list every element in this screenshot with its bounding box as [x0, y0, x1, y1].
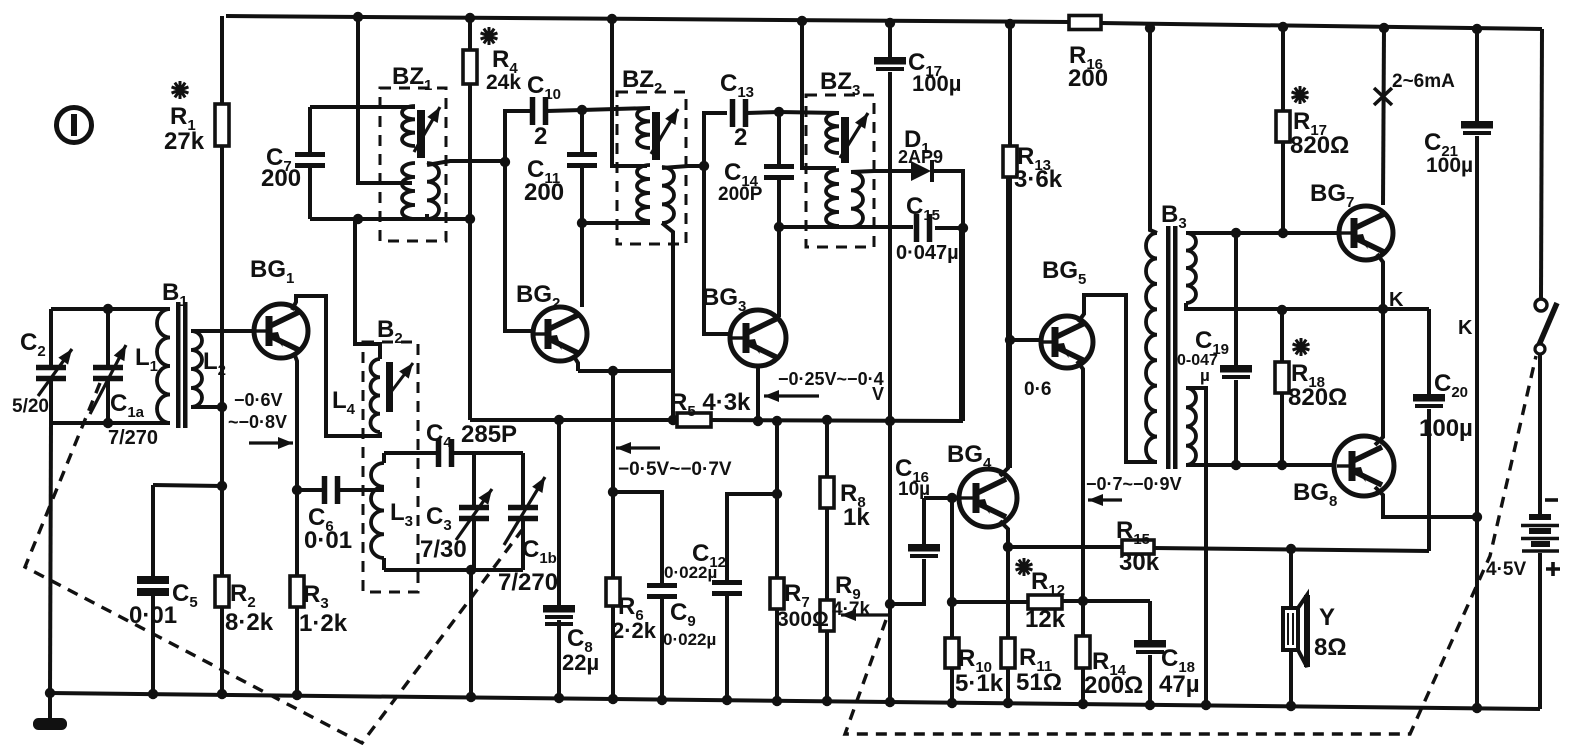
wire top supply rail right of R16	[1101, 23, 1542, 29]
resistor R14 200ohm	[1076, 636, 1090, 668]
node R4 / BZ1 bottom	[465, 214, 475, 224]
node rail/ground corner	[45, 688, 55, 698]
node rail / BZ1 feed	[353, 12, 363, 22]
svg-text:2AP9: 2AP9	[898, 147, 943, 167]
wire BG1 emitter to R3	[294, 353, 297, 576]
wire dashed volume/switch gang link	[845, 356, 1536, 734]
resistor R12 12k	[1028, 595, 1062, 609]
capacitor C1a (variable 7/270)	[90, 345, 126, 414]
inductor BZ2 primary upper section	[637, 108, 650, 148]
inductor L4 (oscillator feedback winding)	[371, 359, 381, 432]
wire C3 bottom lead	[472, 521, 476, 570]
node C19 top	[1231, 228, 1241, 238]
wire rail to R4	[468, 18, 472, 50]
resistor R10 5.1k	[945, 638, 959, 668]
wire antenna tank bottom	[51, 421, 170, 425]
wire bottom ground rail	[50, 693, 1540, 709]
svg-text:0·022µ: 0·022µ	[664, 563, 717, 582]
wire R9 to ground rail	[825, 631, 829, 701]
wire D1 cathode down to C15 node	[934, 171, 963, 228]
wire BG2 emitter horizontal	[578, 369, 673, 373]
node C18 ground	[1145, 700, 1155, 710]
svg-text:0-047: 0-047	[1177, 352, 1218, 369]
wire emitter column through R6	[611, 371, 615, 699]
wire base node to R12	[952, 600, 1028, 604]
wire BG8 collector to K node	[1375, 309, 1383, 445]
wire BG2 emitter lead	[573, 355, 578, 371]
capacitor C7 200	[295, 155, 325, 166]
wire BG8 emitter to ground column	[1375, 487, 1477, 517]
inductor BZ3 secondary	[851, 172, 863, 227]
IF transformer BZ2 dashed enclosure	[617, 92, 686, 244]
node R18 / BG8 base	[1277, 460, 1287, 470]
svg-text:R5 4·3k: R5 4·3k	[670, 389, 751, 420]
node K output	[1378, 304, 1388, 314]
switch K terminal bottom	[1535, 344, 1545, 354]
node BG4 base / R10	[947, 493, 957, 503]
wire R17 to BG7 base line	[1281, 142, 1285, 233]
capacitor C3 (trimmer 7/30)	[456, 489, 492, 540]
wire BZ1 secondary bottom stub	[425, 214, 429, 219]
node C14 bottom / BZ3 primary bottom / BG3 collector	[774, 222, 784, 232]
node C11 bottom / BZ2 primary bottom / BG2 collector	[577, 218, 587, 228]
wire top rail to R1	[220, 16, 224, 104]
node rail / BZ2 feed	[607, 14, 617, 24]
resistor R2 8.2k	[215, 576, 229, 607]
wire BZ2 secondary top lead	[662, 166, 704, 168]
svg-text:51Ω: 51Ω	[1016, 669, 1062, 696]
svg-text:−0·25V~−0·4: −0·25V~−0·4	[778, 369, 884, 389]
capacitor C17 100u	[874, 57, 906, 69]
wire K line to R18	[1280, 310, 1284, 362]
inductor B3 secondary upper	[1186, 233, 1196, 303]
wire rail to BZ1 primary tap	[358, 17, 412, 183]
inductor B3 primary	[1146, 233, 1157, 462]
inductor BZ1 primary upper section	[402, 106, 415, 146]
battery 4.5V	[1521, 514, 1559, 551]
diode D1 2AP9	[911, 160, 932, 182]
node audio column ground	[885, 697, 895, 707]
node BZ2 sec / C13 / BG3 base	[699, 161, 709, 171]
wire C11 bottom lead	[580, 168, 584, 223]
node BG8 emitter / C21 column	[1472, 512, 1482, 522]
capacitor C16 10u	[908, 544, 940, 556]
svg-text:200Ω: 200Ω	[1084, 672, 1143, 699]
switch K lever	[1536, 303, 1557, 352]
wire L2 top to BG1 base	[191, 329, 254, 333]
node speaker top	[1286, 544, 1296, 554]
resistor R7 300ohm	[770, 578, 784, 609]
wire C16 top lead	[922, 498, 926, 545]
wire R13 to BG4 collector / BG5 base	[1008, 177, 1012, 468]
node speaker ground	[1286, 701, 1296, 711]
node R3 ground	[292, 690, 302, 700]
node rail / R13	[1005, 19, 1015, 29]
node BG5 emitter / R14 / R12	[1078, 596, 1088, 606]
wire C14 bottom lead	[777, 180, 781, 227]
svg-text:300Ω: 300Ω	[777, 608, 829, 631]
node rail / B3 primary	[1145, 23, 1155, 33]
capacitor C1b (variable 7/270)	[504, 477, 545, 545]
transistor BG3	[730, 310, 786, 366]
wire R10 to ground rail	[950, 668, 954, 703]
node AVC / R7	[772, 416, 782, 426]
wire R7 to ground rail	[775, 609, 779, 701]
node C7/BZ1 bottom/L4	[353, 214, 363, 224]
wire C6 to L3 tap	[339, 488, 384, 492]
wire to BG5 base	[1010, 338, 1041, 342]
node BG1 emitter / C6	[292, 485, 302, 495]
transistor BG5	[1040, 316, 1093, 368]
node BG5 base	[1005, 335, 1015, 345]
svg-text:Y: Y	[1319, 604, 1335, 631]
capacitor C4 285P	[439, 439, 452, 467]
wire BG3 collector lead	[777, 227, 781, 317]
wire BG2 collector lead	[580, 223, 584, 307]
wire R14 to ground rail	[1081, 668, 1085, 704]
wire C18 to ground rail	[1148, 655, 1152, 705]
wire C5 top lead	[151, 485, 155, 577]
wire B3 sec upper bottom to K node	[1186, 303, 1429, 309]
inductor BZ3 primary lower section	[826, 170, 839, 226]
node C16 jog	[885, 599, 895, 609]
ground	[33, 693, 67, 730]
wire top supply rail left of R16	[226, 16, 1069, 22]
wire B3 sec lower top to ground rail	[1186, 388, 1206, 705]
wire to speaker	[1289, 549, 1293, 608]
wire L3 bottom stub	[382, 558, 386, 570]
wire R8 to R9	[825, 508, 829, 600]
node BG2 emitter / R6	[608, 366, 618, 376]
wire speaker to ground rail	[1289, 650, 1293, 706]
wire BZ1 bottom node	[310, 217, 470, 221]
node R14 ground	[1078, 699, 1088, 709]
inductor BZ2 primary lower section	[637, 165, 650, 221]
svg-text:2: 2	[534, 123, 547, 150]
resistor R9 4.7k (volume)	[820, 600, 834, 631]
svg-text:7/270: 7/270	[498, 569, 558, 596]
transformer BZ2 core bar	[652, 112, 660, 160]
capacitor C11 200	[567, 155, 597, 166]
svg-text:2~6mA: 2~6mA	[1392, 71, 1455, 92]
wire C10 right lead	[547, 110, 582, 111]
wire to BZ2 primary top	[582, 108, 650, 110]
wire BG5 collector to B3 primary bottom	[1078, 295, 1157, 462]
transformer BZ3 core bar	[841, 117, 849, 163]
wire L3 top stub	[382, 453, 386, 463]
node C5 ground	[148, 689, 158, 699]
wire C19 bottom lead	[1234, 380, 1238, 465]
svg-text:3·6k: 3·6k	[1014, 166, 1063, 193]
arrow BZ3 adjustable core	[840, 113, 868, 158]
node R7 ground	[772, 696, 782, 706]
wire C21 to ground rail	[1475, 136, 1479, 708]
resistor R6 2.2k	[606, 578, 620, 606]
wire C16 bottom jog to volume arrow	[890, 559, 924, 604]
svg-text:K: K	[1458, 317, 1473, 339]
wire to C6	[297, 488, 323, 492]
wire BG5 emitter to R14	[1077, 361, 1083, 636]
node AVC / audio column	[885, 416, 895, 426]
wire rail to BZ2 primary tap	[612, 19, 647, 166]
wire tank top left of C4	[384, 451, 437, 455]
wire BZ2 sec to BG3 base	[704, 166, 730, 334]
speaker Y 8ohm	[1283, 595, 1307, 667]
figure label (I)	[57, 108, 92, 143]
wire C1b top lead	[521, 453, 525, 505]
svg-text:1k: 1k	[843, 504, 870, 531]
wire BG3 emitter to AVC line	[756, 366, 760, 421]
node tank top / C1a	[103, 304, 113, 314]
capacitor C15 0.047u	[917, 214, 930, 242]
node R6 top / C9 jog	[608, 487, 618, 497]
inductor BZ2 secondary	[662, 167, 674, 223]
wire to C5 branch	[153, 485, 222, 486]
svg-text:4·7k: 4·7k	[832, 599, 870, 620]
arrow BZ2 adjustable core	[651, 109, 678, 154]
wire R4 to AVC line	[468, 84, 472, 420]
arrow B2 adjustable core	[388, 363, 413, 396]
asterisk R17	[1292, 86, 1309, 104]
node C12 ground	[722, 695, 732, 705]
capacitor C18 47u	[1134, 640, 1166, 652]
node R18 top / K line	[1277, 305, 1287, 315]
wire antenna tank top	[51, 307, 170, 311]
wire C15 right lead	[935, 226, 963, 230]
svg-text:4·5V: 4·5V	[1486, 559, 1526, 580]
wire BZ1 sec to BG2 base	[505, 162, 533, 331]
node BG4 emitter / R15 feedback	[1003, 542, 1013, 552]
capacitor C19 0.047u	[1220, 365, 1252, 377]
wire C1b bottom lead	[521, 521, 525, 570]
wire C14 top lead	[777, 112, 781, 164]
transistor BG4	[959, 469, 1017, 527]
resistor R3 1.2k	[290, 576, 304, 607]
wire dashed tuning gang link	[25, 383, 522, 743]
wire rail to R13	[1008, 24, 1012, 146]
wire C2 top lead	[49, 309, 53, 365]
capacitor C5 0.01	[137, 576, 169, 584]
node C8 ground	[554, 693, 564, 703]
label battery plus	[1546, 562, 1560, 576]
wire detector to AVC corner	[961, 228, 965, 421]
wire L4 top to oscillator node	[355, 219, 380, 359]
capacitor C21 100u	[1461, 121, 1493, 133]
wire BZ3 secondary top to D1	[851, 171, 911, 172]
meter point X 2~6mA	[1374, 88, 1392, 105]
inductor BZ1 secondary	[427, 163, 439, 219]
svg-text:0·047µ: 0·047µ	[896, 242, 959, 264]
svg-text:0·01: 0·01	[304, 527, 352, 554]
svg-text:12k: 12k	[1025, 606, 1066, 633]
wire R11 to ground rail	[1006, 668, 1010, 703]
IF transformer BZ3 dashed enclosure	[806, 95, 874, 247]
wire battery to ground rail	[1538, 553, 1542, 709]
wire C8 to ground rail	[557, 620, 561, 698]
wire AVC line left segment	[470, 418, 677, 422]
inductor BZ3 primary upper section	[826, 113, 839, 153]
wire tank top right of C4	[453, 451, 523, 455]
node BZ2 sec bottom / R5 left	[668, 415, 678, 425]
wire tank bottom	[384, 568, 523, 572]
node R9 ground	[822, 696, 832, 706]
wire rail right side down to switch	[1541, 29, 1542, 299]
arrow volume pickoff at R9	[841, 613, 890, 616]
svg-text:30k: 30k	[1119, 549, 1160, 576]
inductor B3 secondary lower	[1186, 388, 1196, 465]
wire AVC to R8	[825, 420, 829, 477]
wire C11 top lead	[580, 110, 584, 152]
wire C20 to speaker line	[1427, 409, 1431, 551]
node C13 / C14 / BZ3 top	[774, 107, 784, 117]
wire C17/audio column to ground rail	[888, 72, 892, 702]
wire R18 to BG8 base line	[1280, 393, 1284, 465]
svg-text:~−0·8V: ~−0·8V	[228, 412, 287, 432]
svg-text:−0·5V~−0·7V: −0·5V~−0·7V	[618, 459, 732, 480]
wire C19 top lead	[1234, 233, 1238, 366]
wire R7 column	[775, 421, 779, 578]
wire AVC line right segment up to detector	[711, 228, 961, 421]
wire R15 to C20/speaker node	[1154, 548, 1429, 551]
wire L2 bottom to R1/R2 node	[191, 405, 222, 409]
wire tank to ground rail	[469, 570, 473, 697]
asterisk R18	[1293, 338, 1310, 356]
wire R1 to R2 column	[220, 146, 224, 576]
wire tank bottom to ground rail	[50, 423, 51, 693]
capacitor C9 0.022u	[647, 586, 677, 597]
arrow annotation BG1 emitter voltage	[249, 441, 293, 444]
node R6 ground	[608, 694, 618, 704]
capacitor C12 0.022u	[712, 583, 742, 594]
svg-text:7/270: 7/270	[108, 427, 158, 449]
wire switch to battery	[1538, 354, 1542, 516]
svg-text:7/30: 7/30	[420, 536, 467, 563]
svg-text:K: K	[1389, 289, 1404, 311]
node R2 top / C5 wire	[217, 481, 227, 491]
svg-text:200: 200	[1068, 65, 1108, 92]
wire R2 to ground rail	[220, 607, 224, 694]
capacitor C20 100u	[1413, 394, 1445, 406]
wire K to C20	[1427, 309, 1431, 395]
wire BZ1 secondary top to C10 node	[427, 161, 505, 165]
node C10 / C11 / BZ2 top	[577, 105, 587, 115]
node tank bottom center	[466, 565, 476, 575]
wire rail to BZ3 primary tap	[802, 21, 836, 168]
inductor L2 (B1 secondary)	[191, 331, 202, 407]
resistor R5 4.3k	[677, 413, 711, 427]
wire C21 top lead	[1475, 29, 1479, 122]
wire BG4 emitter down to R11	[1000, 521, 1008, 638]
asterisk R4	[481, 27, 498, 45]
asterisk R1	[172, 81, 189, 99]
node R10 ground	[947, 698, 957, 708]
wire BG4 emitter to R15	[1008, 545, 1122, 549]
node B3 sec ground	[1201, 700, 1211, 710]
resistor R15 30k	[1122, 540, 1154, 554]
transistor BG8	[1334, 436, 1394, 496]
wire R12 to BG5 emitter node	[1062, 599, 1150, 603]
resistor R11 51ohm	[1001, 638, 1015, 668]
capacitor C6 0.01	[325, 476, 338, 504]
wire jog to C9	[613, 492, 662, 583]
wire BG7 emitter to K node	[1377, 254, 1383, 309]
node rail / R4	[465, 13, 475, 23]
node R10 top / R12	[947, 597, 957, 607]
transformer B3 core	[1166, 226, 1171, 469]
node R2 ground	[217, 689, 227, 699]
wire base to R10	[950, 498, 954, 638]
capacitor C10 2	[533, 97, 546, 125]
wire BZ2 secondary bottom to AVC line	[662, 223, 673, 420]
wire C13 right lead	[747, 112, 779, 113]
svg-text:100µ: 100µ	[1426, 154, 1473, 177]
wire C15 left lead	[779, 225, 913, 229]
node BZ1 sec / C10 / BG2 base	[500, 157, 510, 167]
svg-text:200: 200	[261, 165, 301, 192]
node rail / C21	[1472, 24, 1482, 34]
node C9 ground	[657, 695, 667, 705]
svg-text:10µ: 10µ	[898, 479, 930, 500]
resistor R4 24k	[463, 50, 477, 84]
label battery minus	[1545, 498, 1558, 502]
transistor BG2	[533, 307, 587, 361]
resistor R17 820ohm	[1276, 111, 1290, 142]
wire C10 left lead	[505, 111, 531, 161]
svg-text:0·6: 0·6	[1024, 379, 1051, 400]
wire C5 to ground rail	[151, 596, 155, 694]
node R17 / BG7 base	[1278, 228, 1288, 238]
svg-text:27k: 27k	[164, 128, 205, 155]
node BG3 emitter / AVC	[753, 416, 763, 426]
wire C13 left lead	[704, 113, 727, 166]
node tank bottom / C1a	[103, 418, 113, 428]
svg-text:2·2k: 2·2k	[612, 618, 657, 643]
svg-text:285P: 285P	[461, 421, 517, 448]
svg-text:8·2k: 8·2k	[225, 609, 274, 636]
inductor L3 (oscillator tank winding)	[371, 463, 384, 558]
inductor BZ1 primary lower section	[402, 163, 415, 219]
wire C9 to ground rail	[660, 599, 664, 700]
wire jog to C12	[727, 494, 777, 580]
capacitor C2 (variable 5/20)	[36, 349, 72, 396]
resistor R13 3.6k	[1003, 146, 1017, 177]
node rail / BZ3 feed	[797, 16, 807, 26]
wire B3 sec lower bottom to BG8 base	[1186, 463, 1334, 467]
resistor R16 inline in top rail	[1069, 16, 1101, 30]
capacitor C8 22u	[543, 605, 575, 617]
transistor BG7	[1339, 206, 1393, 260]
arrow BZ1 adjustable core	[414, 107, 440, 152]
wire to BZ2 primary bottom	[582, 221, 650, 225]
svg-text:µ: µ	[1200, 366, 1210, 385]
node R7 / C12 jog	[772, 489, 782, 499]
svg-text:5/20: 5/20	[12, 396, 49, 417]
svg-text:200: 200	[524, 179, 564, 206]
wire C1a top lead	[106, 309, 110, 365]
transformer BZ1 core bar	[417, 110, 425, 158]
capacitor C14 200P	[764, 167, 794, 178]
node R11 ground	[1003, 698, 1013, 708]
wire C7 top to BZ1 primary top	[310, 105, 415, 109]
wire C2 bottom lead	[49, 381, 53, 423]
svg-text:47µ: 47µ	[1159, 671, 1200, 698]
node rail / C17	[885, 18, 895, 28]
wire BG1 collector to L4 bottom	[292, 296, 380, 436]
transformer B2 dashed enclosure	[363, 342, 418, 592]
resistor R1 27k	[215, 104, 229, 146]
node C21 ground	[1472, 703, 1482, 713]
node AVC / C8	[554, 415, 564, 425]
